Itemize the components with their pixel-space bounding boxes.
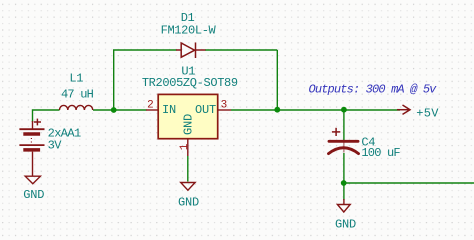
pin 3 (OUT): [218, 109, 231, 111]
svg-text:GND: GND: [335, 217, 356, 231]
wire: battery top to inductor: [33, 110, 60, 122]
svg-text:+5V: +5V: [416, 106, 439, 120]
inductor L1: [60, 105, 93, 110]
wire: IC pin 1 down to GND: [187, 156, 189, 182]
C4 plus sign: [332, 128, 340, 136]
power symbol +5V arrow: [397, 105, 410, 114]
wire: junction up to diode loop: [113, 50, 115, 110]
svg-text:1: 1: [179, 143, 191, 150]
svg-text:Outputs: 300 mA @ 5v: Outputs: 300 mA @ 5v: [309, 83, 438, 97]
op-amp U1 regulator body: [158, 94, 218, 138]
junction node D (C4 bottom): [341, 180, 347, 186]
svg-text:OUT: OUT: [195, 103, 216, 117]
svg-text:3: 3: [221, 100, 228, 112]
svg-text:FM120L-W: FM120L-W: [161, 23, 217, 37]
pin 1 (GND): [187, 139, 189, 156]
wire: inductor to IC pin 2: [93, 109, 147, 111]
svg-text:IN: IN: [162, 103, 176, 117]
wire: right drop down to output net: [276, 50, 278, 110]
svg-text:GND: GND: [23, 188, 44, 202]
svg-text:GND: GND: [178, 195, 199, 209]
svg-text:47 uH: 47 uH: [61, 88, 94, 102]
svg-text:100 uF: 100 uF: [361, 146, 400, 160]
wire: lower junction to right edge: [344, 182, 474, 184]
pin 2 (IN): [146, 109, 158, 111]
svg-text:L1: L1: [69, 72, 83, 86]
diode D1: [176, 43, 206, 59]
ground (battery): [25, 176, 40, 184]
ground (C4 / output return): [343, 199, 345, 205]
ground (U1 pin 1): [181, 183, 195, 191]
svg-text:3V: 3V: [48, 138, 63, 152]
svg-text:TR2005ZQ-SOT89: TR2005ZQ-SOT89: [142, 76, 238, 90]
wire: C4 bottom to lower junction: [343, 153, 345, 183]
wire: IC OUT to +5V arrow: [231, 109, 400, 111]
capacitor C4: [329, 141, 359, 154]
junction node A (inductor/diode/IN): [111, 107, 117, 113]
junction node C (C4 top): [341, 107, 347, 113]
wire: lower junction down to GND: [343, 183, 345, 200]
wire: top run to diode: [113, 49, 177, 51]
wire: diode to right drop: [205, 49, 277, 51]
wire: C4 top branch: [343, 110, 345, 140]
junction node B (diode return/output): [274, 107, 280, 113]
svg-text:GND: GND: [182, 114, 196, 135]
battery plus sign: [34, 119, 41, 126]
svg-text:2: 2: [147, 100, 154, 112]
battery BT 2xAA1: [19, 121, 44, 176]
